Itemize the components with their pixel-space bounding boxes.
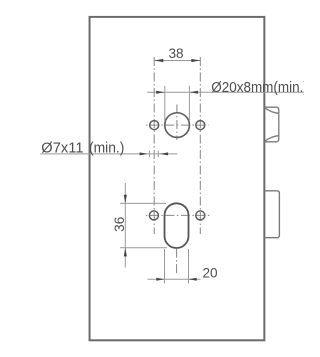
dimension 36 extension line top	[120, 202, 166, 204]
dimension 36 extension line bottom	[120, 247, 167, 249]
dia20 extension line left	[164, 86, 166, 122]
screw hole top left	[150, 121, 159, 130]
dimension 38 right arrow	[191, 59, 200, 62]
centerline horizontal bottom group	[145, 214, 211, 216]
centerline vertical middle (spindle hole)	[176, 105, 178, 141]
dimension 38 line	[154, 60, 200, 62]
lock case plate outline	[90, 17, 265, 340]
dia7x11 leader line	[40, 153, 177, 155]
dimension 20 line	[148, 278, 201, 280]
dia20 left arrow	[156, 91, 165, 94]
centerline horizontal top group	[146, 124, 209, 126]
dimension 20 left arrow	[156, 278, 164, 281]
screw hole bottom left	[149, 211, 158, 220]
spindle hole (big circle)	[165, 113, 190, 138]
centerline vertical middle below oval	[176, 249, 178, 274]
dimension 36 top arrow	[124, 195, 127, 204]
dia7x11 left arrow	[140, 152, 148, 155]
cylinder oblong hole	[165, 203, 189, 248]
dia20 right arrow	[190, 91, 199, 94]
svg-text:Ø20x8mm(min.): Ø20x8mm(min.)	[211, 79, 304, 96]
latch bolt (top right tab)	[264, 107, 279, 142]
dimension 20 extension line left	[164, 249, 166, 284]
dia7x11 extension tick right	[157, 151, 159, 158]
svg-text:38: 38	[168, 46, 183, 61]
dimension 20 right arrow	[189, 278, 197, 281]
dead bolt (bottom right tab)	[264, 191, 279, 238]
dimension 36 bottom arrow	[124, 248, 127, 257]
dia7x11 right arrow	[160, 152, 168, 155]
dia20 dimension/leader line	[147, 91, 304, 93]
dimension 36 line	[124, 183, 126, 268]
svg-text:(min.): (min.)	[89, 139, 124, 156]
dia7x11 extension tick left	[148, 151, 150, 158]
screw hole top right	[196, 121, 205, 130]
svg-text:20: 20	[202, 265, 218, 280]
svg-text:Ø7x11: Ø7x11	[41, 139, 83, 156]
screw hole bottom right	[196, 211, 205, 220]
dimension 38 left arrow	[154, 59, 163, 62]
centerline vertical left	[153, 57, 155, 234]
dimension 20 extension line right	[188, 249, 190, 284]
centerline vertical right	[199, 57, 201, 234]
dia20 extension line right	[188, 86, 190, 122]
svg-text:36: 36	[112, 217, 127, 232]
